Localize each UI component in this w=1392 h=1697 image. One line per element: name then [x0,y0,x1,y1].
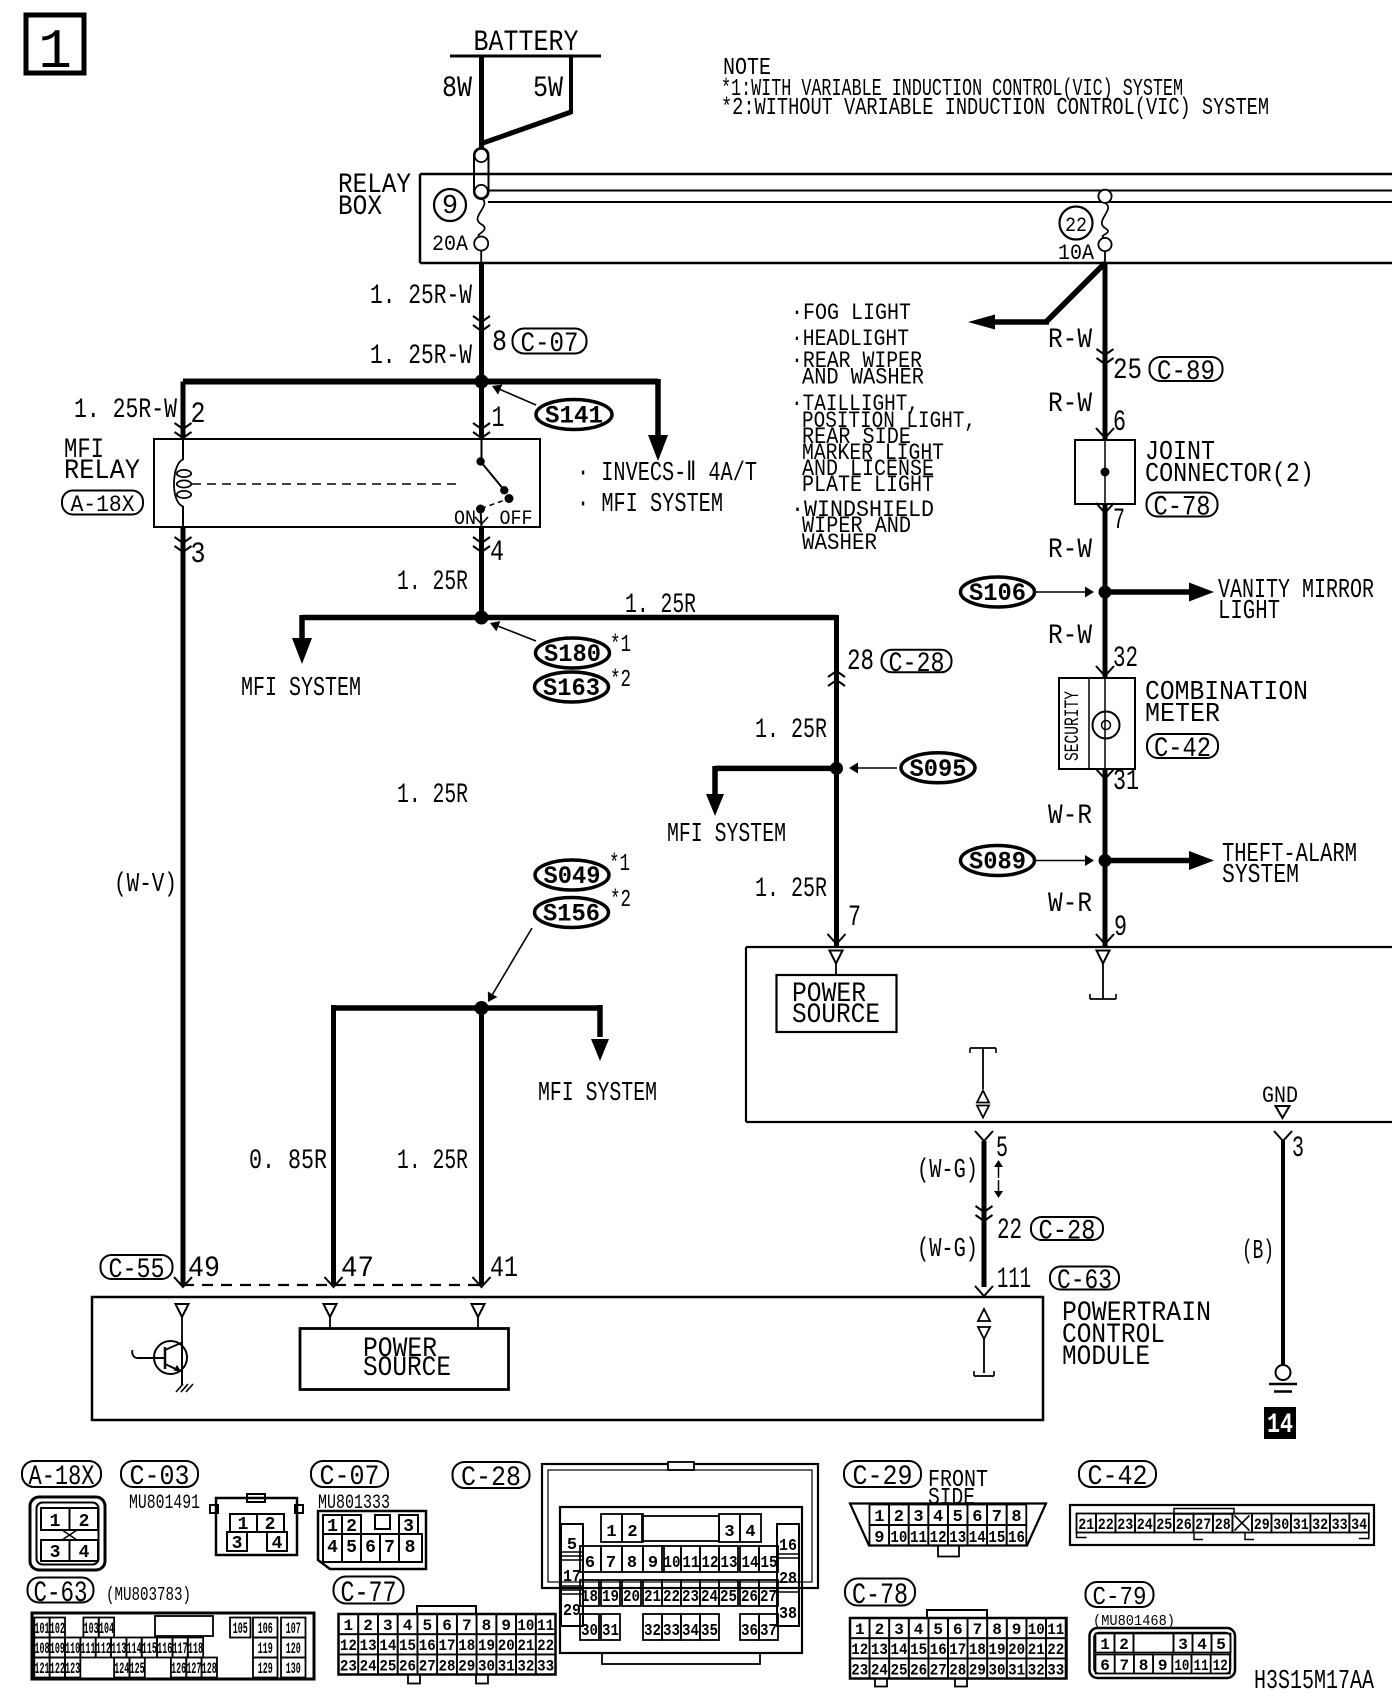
svg-text:22: 22 [663,1588,680,1607]
svg-text:(B): (B) [1242,1237,1274,1267]
svg-text:C-79: C-79 [1093,1582,1147,1612]
svg-text:126: 126 [171,1660,186,1678]
svg-text:C-63: C-63 [34,1577,88,1611]
svg-text:22: 22 [1047,1641,1064,1659]
svg-text:120: 120 [286,1640,301,1658]
svg-text:15: 15 [910,1641,927,1659]
svg-text:17: 17 [439,1637,456,1655]
svg-text:5: 5 [1216,1636,1226,1654]
svg-text:C-78: C-78 [1154,493,1211,524]
svg-text:27: 27 [1195,1516,1211,1534]
svg-text:9: 9 [1158,1657,1168,1675]
svg-text:111: 111 [81,1640,96,1658]
svg-text:8: 8 [627,1554,637,1573]
svg-text:10: 10 [1028,1621,1045,1639]
svg-text:1. 25R: 1. 25R [397,1146,468,1177]
svg-text:27: 27 [930,1661,947,1679]
svg-text:28: 28 [779,1570,797,1589]
svg-text:1: 1 [606,1523,616,1542]
svg-text:LIGHT: LIGHT [1218,597,1280,627]
svg-text:21: 21 [1028,1641,1045,1659]
svg-text:W-R: W-R [1048,889,1092,920]
svg-text:S156: S156 [543,900,600,929]
svg-text:MFI SYSTEM: MFI SYSTEM [538,1079,657,1109]
svg-text:15: 15 [399,1637,416,1655]
svg-text:1. 25R-W: 1. 25R-W [74,395,177,426]
svg-text:MODULE: MODULE [1062,1342,1150,1373]
svg-text:12: 12 [340,1637,357,1655]
svg-text:C-28: C-28 [889,649,945,680]
svg-text:21: 21 [1078,1516,1094,1534]
svg-text:14: 14 [891,1641,908,1659]
svg-text:S095: S095 [910,755,967,784]
svg-text:32: 32 [644,1622,661,1641]
svg-text:11: 11 [910,1529,927,1548]
svg-text:3: 3 [894,1621,904,1639]
svg-text:20: 20 [623,1588,640,1607]
svg-text:104: 104 [99,1620,114,1638]
svg-text:16: 16 [779,1537,797,1556]
svg-text:1: 1 [344,1617,354,1635]
svg-text:31: 31 [1293,1516,1309,1534]
svg-text:5: 5 [933,1621,943,1639]
svg-text:14: 14 [742,1554,759,1573]
svg-text:R-W: R-W [1048,535,1092,566]
svg-text:103: 103 [84,1620,99,1638]
svg-text:S180: S180 [544,640,601,669]
svg-text:14: 14 [1267,1410,1293,1441]
svg-text:C-55: C-55 [109,1255,165,1286]
svg-text:R-W: R-W [1048,389,1092,420]
svg-text:12: 12 [702,1554,719,1573]
svg-text:32: 32 [1028,1661,1045,1679]
svg-text:29: 29 [1254,1516,1270,1534]
svg-text:AND WASHER: AND WASHER [802,365,924,391]
svg-text:MU801491: MU801491 [129,1492,200,1515]
svg-text:*1: *1 [610,632,631,659]
svg-text:1. 25R: 1. 25R [755,715,827,746]
svg-text:8: 8 [1139,1657,1149,1675]
svg-text:CONNECTOR(2): CONNECTOR(2) [1145,460,1314,490]
svg-text:1. 25R: 1. 25R [625,590,696,621]
svg-text:112: 112 [96,1640,111,1658]
svg-text:8: 8 [405,1538,416,1558]
svg-text:4: 4 [272,1534,283,1554]
svg-text:108: 108 [34,1640,49,1658]
svg-text:12: 12 [1213,1657,1228,1675]
svg-text:8: 8 [482,1617,492,1635]
svg-text:9: 9 [1012,1621,1022,1639]
svg-text:38: 38 [779,1605,797,1624]
svg-text:12: 12 [851,1641,868,1659]
svg-text:S106: S106 [969,579,1026,608]
svg-text:5W: 5W [533,72,563,106]
svg-text:C-78: C-78 [852,1579,908,1613]
svg-text:10: 10 [1174,1657,1189,1675]
svg-text:21: 21 [517,1637,534,1655]
svg-text:124: 124 [114,1660,129,1678]
svg-text:113: 113 [111,1640,126,1658]
svg-text:30: 30 [581,1622,598,1641]
svg-text:127: 127 [186,1660,201,1678]
svg-text:1: 1 [855,1621,865,1639]
svg-text:29: 29 [458,1657,475,1675]
svg-text:1. 25R: 1. 25R [397,567,468,598]
svg-text:SOURCE: SOURCE [792,1000,880,1031]
svg-text:C-42: C-42 [1088,1462,1148,1493]
svg-text:33: 33 [663,1622,680,1641]
svg-text:22: 22 [1098,1516,1114,1534]
svg-text:11: 11 [1047,1621,1064,1639]
svg-text:1. 25R: 1. 25R [755,874,827,905]
svg-text:27: 27 [760,1588,777,1607]
svg-text:13: 13 [360,1637,377,1655]
svg-text:25: 25 [720,1588,737,1607]
svg-text:16: 16 [930,1641,947,1659]
svg-text:9: 9 [874,1529,884,1548]
svg-text:111: 111 [997,1263,1031,1297]
svg-text:PLATE LIGHT: PLATE LIGHT [802,472,934,498]
svg-text:107: 107 [286,1620,301,1638]
svg-text:35: 35 [701,1622,718,1641]
svg-text:41: 41 [490,1252,518,1286]
svg-text:C-03: C-03 [130,1462,190,1493]
svg-text:19: 19 [478,1637,495,1655]
svg-text:METER: METER [1145,700,1220,730]
svg-text:7: 7 [606,1554,616,1573]
svg-text:26: 26 [910,1661,927,1679]
svg-text:33: 33 [1332,1516,1348,1534]
svg-text:2: 2 [875,1621,885,1639]
svg-text:11: 11 [1194,1657,1209,1675]
svg-text:129: 129 [258,1660,273,1678]
svg-text:4: 4 [490,536,504,570]
svg-text:18: 18 [581,1588,598,1607]
svg-text:34: 34 [1351,1516,1367,1534]
svg-text:29: 29 [969,1661,986,1679]
svg-text:4: 4 [914,1621,924,1639]
svg-text:23: 23 [682,1588,699,1607]
svg-text:OFF: OFF [500,508,533,531]
svg-text:*1: *1 [609,851,630,878]
svg-text:115: 115 [142,1640,157,1658]
svg-text:BOX: BOX [338,192,382,223]
svg-text:19: 19 [602,1588,619,1607]
svg-text:1: 1 [492,402,505,436]
svg-text:22: 22 [997,1214,1022,1248]
svg-text:*2: *2 [610,887,631,914]
svg-text:2: 2 [1119,1636,1129,1654]
svg-text:3: 3 [724,1523,734,1542]
svg-text:9: 9 [442,192,458,222]
svg-text:24: 24 [1137,1516,1153,1534]
svg-text:7: 7 [462,1617,472,1635]
svg-text:C-07: C-07 [320,1462,380,1493]
svg-text:RELAY: RELAY [64,456,140,487]
svg-text:122: 122 [50,1660,65,1678]
svg-text:13: 13 [871,1641,888,1659]
svg-text:23: 23 [851,1661,868,1679]
svg-text:1. 25R-W: 1. 25R-W [370,341,472,372]
svg-text:6: 6 [1113,406,1126,440]
svg-text:17: 17 [563,1568,581,1587]
svg-text:32: 32 [1113,642,1138,676]
svg-text:30: 30 [478,1657,495,1675]
svg-text:· INVECS-Ⅱ 4A/T: · INVECS-Ⅱ 4A/T [577,459,757,489]
svg-text:118: 118 [188,1640,203,1658]
svg-text:106: 106 [258,1620,273,1638]
svg-text:· MFI SYSTEM: · MFI SYSTEM [577,490,723,520]
svg-text:32: 32 [517,1657,534,1675]
svg-text:3: 3 [1292,1132,1304,1166]
svg-text:49: 49 [188,1252,220,1286]
svg-text:36: 36 [741,1622,758,1641]
svg-text:4: 4 [1197,1636,1207,1654]
svg-text:S163: S163 [543,674,600,703]
svg-text:4: 4 [403,1617,413,1635]
svg-text:WASHER: WASHER [802,530,877,556]
svg-text:3: 3 [1178,1636,1188,1654]
svg-text:13: 13 [721,1554,738,1573]
svg-text:C-89: C-89 [1157,357,1215,388]
svg-text:A-18X: A-18X [29,1462,95,1493]
svg-text:5: 5 [567,1536,577,1555]
svg-text:23: 23 [1117,1516,1133,1534]
svg-text:27: 27 [419,1657,436,1675]
svg-text:25: 25 [891,1661,908,1679]
svg-text:6: 6 [442,1617,452,1635]
svg-text:15: 15 [761,1554,778,1573]
svg-text:116: 116 [157,1640,172,1658]
svg-text:30: 30 [989,1661,1006,1679]
svg-text:28: 28 [847,645,874,679]
svg-text:105: 105 [233,1620,248,1638]
svg-text:30: 30 [1273,1516,1289,1534]
svg-text:34: 34 [682,1622,699,1641]
svg-text:33: 33 [1047,1661,1064,1679]
svg-text:SOURCE: SOURCE [363,1353,451,1384]
svg-text:8: 8 [992,1621,1002,1639]
svg-text:C-29: C-29 [853,1462,913,1493]
svg-text:128: 128 [202,1660,217,1678]
svg-text:25: 25 [1156,1516,1172,1534]
svg-text:20A: 20A [432,232,469,257]
svg-text:18: 18 [969,1641,986,1659]
svg-text:22: 22 [1065,215,1087,238]
svg-text:H3S15M17AA: H3S15M17AA [1254,1667,1375,1692]
svg-text:9: 9 [648,1554,658,1573]
svg-text:S141: S141 [545,402,603,431]
svg-text:31: 31 [1008,1661,1025,1679]
svg-text:5: 5 [996,1132,1008,1166]
svg-text:9: 9 [1114,911,1127,945]
svg-text:W-R: W-R [1048,801,1092,832]
svg-text:10: 10 [890,1529,907,1548]
svg-text:121: 121 [34,1660,49,1678]
svg-text:11: 11 [683,1554,700,1573]
svg-text:8W: 8W [442,72,472,106]
svg-text:6: 6 [585,1554,595,1573]
svg-text:(MU803783): (MU803783) [106,1584,191,1606]
svg-text:R-W: R-W [1048,325,1092,356]
svg-text:1: 1 [1100,1636,1110,1654]
svg-text:5: 5 [346,1538,357,1558]
svg-text:10: 10 [664,1554,681,1573]
svg-text:15: 15 [988,1529,1005,1548]
svg-text:3: 3 [383,1617,393,1635]
svg-text:24: 24 [871,1661,888,1679]
svg-text:7: 7 [1119,1657,1129,1675]
svg-text:11: 11 [537,1617,554,1635]
svg-text:14: 14 [969,1529,986,1548]
svg-text:(W-V): (W-V) [114,870,177,900]
svg-text:6: 6 [1100,1657,1110,1675]
svg-text:2: 2 [79,1512,90,1532]
svg-text:119: 119 [258,1640,273,1658]
svg-text:(W-G): (W-G) [917,1156,978,1186]
svg-text:47: 47 [341,1252,374,1286]
svg-text:7: 7 [384,1538,395,1558]
svg-text:4: 4 [327,1538,338,1558]
svg-text:S049: S049 [544,862,601,891]
svg-text:3: 3 [232,1534,243,1554]
svg-text:23: 23 [340,1657,357,1675]
svg-text:32: 32 [1312,1516,1328,1534]
svg-text:26: 26 [399,1657,416,1675]
svg-text:10A: 10A [1058,241,1095,266]
svg-text:3: 3 [191,538,206,572]
svg-text:2: 2 [191,398,206,432]
svg-text:1. 25R: 1. 25R [397,780,468,811]
svg-text:31: 31 [1113,765,1139,799]
svg-text:S089: S089 [969,848,1026,877]
svg-text:SECURITY: SECURITY [1062,691,1085,761]
svg-text:114: 114 [127,1640,142,1658]
svg-text:24: 24 [701,1588,718,1607]
svg-text:37: 37 [760,1622,777,1641]
svg-text:10: 10 [517,1617,534,1635]
svg-text:C-28: C-28 [1039,1217,1096,1248]
svg-text:MFI SYSTEM: MFI SYSTEM [667,820,786,850]
svg-text:4: 4 [79,1543,90,1563]
svg-text:123: 123 [65,1660,80,1678]
svg-text:101: 101 [34,1620,49,1638]
svg-text:25: 25 [379,1657,396,1675]
svg-text:C-28: C-28 [461,1463,521,1494]
svg-text:7: 7 [848,901,861,935]
svg-text:MFI SYSTEM: MFI SYSTEM [241,674,361,704]
svg-text:0. 85R: 0. 85R [249,1146,327,1177]
svg-text:28: 28 [439,1657,456,1675]
svg-text:31: 31 [602,1622,619,1641]
svg-text:·FOG LIGHT: ·FOG LIGHT [791,300,911,326]
svg-text:C-42: C-42 [1154,734,1211,765]
svg-text:1. 25R-W: 1. 25R-W [370,281,472,312]
svg-text:6: 6 [953,1621,963,1639]
svg-text:*2:WITHOUT VARIABLE INDUCTION: *2:WITHOUT VARIABLE INDUCTION CONTROL(VI… [721,95,1269,122]
svg-text:19: 19 [989,1641,1006,1659]
svg-text:26: 26 [741,1588,758,1607]
svg-text:R-W: R-W [1048,621,1092,652]
svg-text:26: 26 [1176,1516,1192,1534]
svg-text:25: 25 [1113,354,1142,388]
svg-text:C-07: C-07 [521,329,579,360]
svg-text:4: 4 [745,1523,755,1542]
svg-text:16: 16 [419,1637,436,1655]
svg-text:29: 29 [563,1602,581,1621]
svg-text:18: 18 [458,1637,475,1655]
svg-text:3: 3 [50,1543,61,1563]
svg-text:1: 1 [38,20,72,84]
svg-text:31: 31 [498,1657,515,1675]
svg-text:A-18X: A-18X [71,492,135,518]
svg-text:C-63: C-63 [1057,1266,1112,1297]
svg-text:ON: ON [454,508,476,531]
svg-text:110: 110 [65,1640,80,1658]
svg-text:2: 2 [627,1523,637,1542]
svg-text:109: 109 [50,1640,65,1658]
svg-text:117: 117 [173,1640,188,1658]
svg-text:*2: *2 [610,667,631,694]
svg-text:7: 7 [1113,504,1125,538]
svg-text:20: 20 [1008,1641,1025,1659]
svg-text:17: 17 [949,1641,966,1659]
svg-text:28: 28 [949,1661,966,1679]
svg-text:SYSTEM: SYSTEM [1222,861,1299,891]
svg-text:8: 8 [492,326,507,360]
svg-text:14: 14 [379,1637,396,1655]
svg-text:16: 16 [1008,1529,1025,1548]
svg-text:125: 125 [130,1660,145,1678]
svg-text:28: 28 [1215,1516,1231,1534]
svg-text:21: 21 [644,1588,661,1607]
svg-text:9: 9 [501,1617,511,1635]
svg-text:(W-G): (W-G) [917,1235,978,1265]
svg-text:5: 5 [422,1617,432,1635]
svg-text:22: 22 [537,1637,554,1655]
svg-text:33: 33 [537,1657,554,1675]
svg-text:24: 24 [360,1657,377,1675]
svg-text:2: 2 [363,1617,373,1635]
svg-text:1: 1 [50,1512,61,1532]
svg-text:6: 6 [365,1538,376,1558]
svg-text:102: 102 [50,1620,65,1638]
svg-text:20: 20 [498,1637,515,1655]
svg-text:7: 7 [973,1621,983,1639]
svg-text:C-77: C-77 [341,1577,397,1611]
svg-text:130: 130 [286,1660,301,1678]
